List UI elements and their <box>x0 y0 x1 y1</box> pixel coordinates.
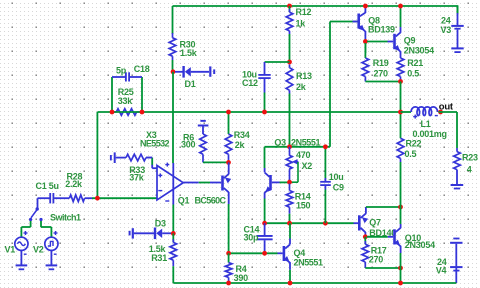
svg-text:0.5: 0.5 <box>407 69 419 79</box>
label Q7 <box>369 218 381 228</box>
diode D3 <box>134 228 171 240</box>
label Q3 <box>274 138 286 148</box>
label R14 <box>295 191 311 201</box>
wire C18 right leg <box>141 77 143 112</box>
label X2 <box>302 161 313 171</box>
node Q9 collector top <box>398 4 403 9</box>
wire Q4 emitter down <box>289 270 291 283</box>
node Q7 emitter junction <box>398 205 403 210</box>
label V2 <box>33 245 44 255</box>
label R21 <box>407 58 423 68</box>
svg-text:D1: D1 <box>185 79 196 89</box>
label V3 <box>441 25 452 35</box>
label R34 <box>234 130 250 140</box>
switch Switch1 <box>29 198 43 221</box>
inductor L1 <box>411 107 438 119</box>
svg-text:470: 470 <box>296 150 311 160</box>
svg-text:R13: R13 <box>296 71 312 81</box>
label R30 value 1.5k <box>180 48 198 58</box>
node Q3/C14 junction <box>262 221 267 226</box>
terminal cell above R6 <box>198 120 209 134</box>
svg-text:33k: 33k <box>118 96 134 106</box>
label V4 <box>436 265 447 275</box>
svg-text:BD139: BD139 <box>368 25 395 35</box>
node Q1 emitter junction <box>226 160 231 165</box>
capacitor C12 <box>258 62 270 93</box>
svg-text:1k: 1k <box>296 18 307 28</box>
svg-text:Q1: Q1 <box>178 196 190 206</box>
wire R31 to rail <box>172 266 174 283</box>
resistor R33 <box>116 154 153 161</box>
wire to L1 <box>401 111 412 113</box>
wire Q4 collector up <box>289 223 291 238</box>
potentiometer X2 <box>286 147 298 182</box>
label R23 <box>462 153 478 163</box>
label R19 <box>373 58 389 68</box>
node out-left junction <box>398 110 403 115</box>
transistor Q8 <box>353 6 366 39</box>
svg-text:2k: 2k <box>235 140 246 150</box>
svg-text:Q3: Q3 <box>274 138 286 148</box>
wire mid left drop <box>96 112 98 198</box>
label D1 <box>185 79 196 89</box>
wire top supply rail <box>173 5 458 14</box>
node R34 top <box>226 110 231 115</box>
label R28 value 2.2k <box>65 179 83 189</box>
transistor Q1 <box>221 167 231 204</box>
svg-text:R21: R21 <box>407 58 423 68</box>
label R17 value 270 <box>369 254 384 264</box>
svg-text:270: 270 <box>374 69 389 79</box>
resistor R31 <box>170 233 177 266</box>
resistor R25 <box>112 109 142 116</box>
label Q9 type 2N3054 <box>404 45 434 55</box>
wire C18 left leg <box>111 77 113 112</box>
svg-text:1.5k: 1.5k <box>180 48 198 58</box>
svg-text:2k: 2k <box>296 82 307 92</box>
svg-text:V4: V4 <box>436 265 447 275</box>
wire mid net <box>97 111 400 113</box>
label R34 value 2k <box>235 140 246 150</box>
svg-text:X2: X2 <box>302 161 313 171</box>
resistor R12 <box>286 6 293 62</box>
capacitor C18 <box>112 72 142 81</box>
label R4 value 390 <box>234 273 249 283</box>
resistor R13 <box>286 65 293 94</box>
svg-text:24: 24 <box>441 16 451 26</box>
svg-text:10u: 10u <box>329 172 344 182</box>
node X2 top junction <box>287 144 292 149</box>
source V1 <box>15 231 28 265</box>
node rail R4 <box>226 281 231 286</box>
node Q7 collector junction <box>363 234 368 239</box>
node Q1/R4 junction <box>226 251 231 256</box>
svg-text:NE5532: NE5532 <box>140 139 170 149</box>
label R28 <box>67 171 83 181</box>
ground at R23 <box>451 184 464 189</box>
label C9 value 10u <box>329 172 344 182</box>
svg-text:0.001mg: 0.001mg <box>413 129 447 139</box>
resistor R19 <box>362 43 369 82</box>
label Q8 <box>368 15 380 25</box>
wire R6 to Q1 emitter node <box>203 161 229 163</box>
node Q4 collector junction <box>287 221 292 226</box>
ground V1 <box>16 264 28 270</box>
label out <box>439 102 454 113</box>
label R13 <box>296 71 312 81</box>
svg-text:5p: 5p <box>116 66 127 76</box>
wire Q8 emitter node <box>364 39 366 53</box>
capacitor C1 <box>38 193 70 203</box>
capacitor C9 <box>320 147 331 223</box>
svg-text:5u: 5u <box>49 181 59 191</box>
capacitor C14 <box>257 223 273 251</box>
label Q8 type BD139 <box>368 25 395 35</box>
wire Q8 base net <box>330 22 358 147</box>
transistor Q10 <box>388 224 401 253</box>
terminal cell at D1 anode <box>209 66 215 76</box>
svg-text:C18: C18 <box>134 64 150 74</box>
wire Q4 base net <box>229 252 278 254</box>
label C18 <box>134 64 150 74</box>
label R33 value 37k <box>129 173 145 183</box>
label Q9 <box>404 36 416 46</box>
label Q4 <box>294 248 306 258</box>
wire R19 bottom link <box>365 81 400 83</box>
label R31 value 1.5k <box>149 244 167 254</box>
label C1 <box>36 181 47 191</box>
diode D1 <box>175 66 209 78</box>
svg-text:R22: R22 <box>406 139 422 149</box>
svg-text:out: out <box>439 102 454 113</box>
svg-text:0.5: 0.5 <box>405 149 417 159</box>
node C12 bottom <box>262 110 267 115</box>
label R33 <box>129 165 145 175</box>
wire Q3 emitter down <box>264 199 266 224</box>
resistor R17 <box>362 237 369 268</box>
label Switch1 <box>50 212 81 222</box>
transistor Q4 <box>278 239 291 270</box>
label C14 value 30p <box>244 232 260 242</box>
svg-text:C1: C1 <box>36 181 47 191</box>
wire switch right to V2 <box>41 221 51 237</box>
svg-text:R34: R34 <box>234 130 250 140</box>
label R6 value 300 <box>181 140 196 150</box>
wire out corner <box>439 112 458 148</box>
svg-text:R19: R19 <box>373 58 389 68</box>
label Q10 <box>405 233 422 243</box>
wire V+ column <box>172 72 174 163</box>
node rail Q4 <box>288 281 293 286</box>
svg-text:C9: C9 <box>333 183 344 193</box>
svg-text:Q9: Q9 <box>404 36 416 46</box>
svg-text:Q4: Q4 <box>294 248 306 258</box>
wire Q10 collector up <box>400 207 402 224</box>
source V2 <box>45 231 58 265</box>
node L1 right junction <box>438 110 443 115</box>
op-amp X3 <box>146 158 183 205</box>
resistor R34 <box>225 112 232 160</box>
label R22 value 0.5 <box>405 149 417 159</box>
wire Q7 collector to Q10 base <box>367 236 388 238</box>
label R12 value 1k <box>296 18 307 28</box>
svg-text:L1: L1 <box>421 119 431 129</box>
node Q8 collector <box>363 4 368 9</box>
wire Q1 collector down <box>228 204 230 253</box>
svg-text:390: 390 <box>234 273 249 283</box>
svg-text:2.2k: 2.2k <box>65 179 83 189</box>
node R12/R13/C12 junction <box>287 60 292 65</box>
label R6 <box>183 133 194 143</box>
node D3 junction <box>171 231 176 236</box>
label V1 <box>5 245 16 255</box>
svg-text:R23: R23 <box>462 153 478 163</box>
label C9 <box>333 183 344 193</box>
wire op-amp output <box>183 182 221 184</box>
svg-text:R31: R31 <box>151 253 167 263</box>
resistor R30 <box>169 33 176 60</box>
svg-text:150: 150 <box>296 201 311 211</box>
label X3 type NE5532 <box>140 139 170 149</box>
battery V4 <box>450 238 462 283</box>
label R22 <box>406 139 422 149</box>
node R25 left <box>110 110 115 115</box>
svg-text:4: 4 <box>467 165 472 175</box>
node rail Q10 <box>398 281 403 286</box>
label R30 <box>180 40 196 50</box>
wire Q8 emitter to Q9 base <box>367 41 388 43</box>
label C14 <box>244 225 260 235</box>
svg-text:Switch1: Switch1 <box>50 212 81 222</box>
resistor R4 <box>225 253 232 283</box>
node R25 right <box>140 110 145 115</box>
label V4 value 24 <box>437 257 447 267</box>
svg-text:2N5551: 2N5551 <box>294 258 324 268</box>
svg-text:2N3054: 2N3054 <box>405 240 435 250</box>
label R31 <box>151 253 167 263</box>
label C12 value 10u <box>242 70 257 80</box>
label L1 <box>421 119 431 129</box>
label R25 <box>118 87 134 97</box>
label C18 value 5p <box>116 66 127 76</box>
resistor R21 <box>397 58 404 82</box>
label X2 value 470 <box>296 150 311 160</box>
svg-text:300: 300 <box>181 140 196 150</box>
wire C12 top <box>265 61 290 63</box>
label R21 value 0.5 <box>407 69 419 79</box>
node X2 bottom junction <box>287 180 292 185</box>
wire Q3 base <box>280 181 290 183</box>
wire Q7 emitter link <box>366 206 401 208</box>
label R4 <box>236 264 247 274</box>
label Q4 type 2N5551 <box>294 258 324 268</box>
label C12 <box>242 78 258 88</box>
wire C12 bottom <box>264 93 266 113</box>
resistor R14 <box>286 184 293 214</box>
svg-text:V2: V2 <box>33 245 44 255</box>
svg-text:V1: V1 <box>5 245 16 255</box>
resistor R6 <box>200 134 207 162</box>
svg-text:2N5551: 2N5551 <box>291 138 321 148</box>
label R12 <box>296 7 312 17</box>
label R13 value 2k <box>296 82 307 92</box>
wire R14 bottom <box>289 214 291 224</box>
transistor Q7 (PNP) <box>354 207 369 236</box>
label Q7 type BD140 <box>369 228 396 238</box>
wire driver net <box>265 222 354 224</box>
node D1/R30 junction <box>171 69 176 74</box>
label Q1 type BC560C <box>195 196 227 206</box>
terminal cell at R33 <box>110 152 116 163</box>
wire bottom rail <box>173 282 456 284</box>
wire R30 bottom <box>172 60 174 72</box>
wire Q10 emitter down <box>400 253 402 284</box>
svg-text:Q7: Q7 <box>369 218 381 228</box>
transistor Q9 <box>388 27 401 58</box>
label L1 value 0.001mg <box>413 129 447 139</box>
wire R30 top lead <box>172 6 174 34</box>
resistor R22 <box>397 112 404 207</box>
node R19/R21 junction <box>398 79 403 84</box>
node C9 bottom junction <box>323 221 328 226</box>
label R19 value 270 <box>374 69 389 79</box>
wire down to out node <box>400 82 402 113</box>
label R17 <box>371 246 387 256</box>
svg-text:37k: 37k <box>129 173 145 183</box>
node Q8 emitter junction <box>363 39 368 44</box>
label Q1 <box>178 196 190 206</box>
node C14 bottom junction <box>262 251 267 256</box>
resistor R23 <box>454 148 461 184</box>
ground V2 <box>46 264 58 270</box>
label R14 value 150 <box>296 201 311 211</box>
wire switch left to V1 <box>21 221 30 237</box>
label D3 <box>155 219 166 229</box>
svg-text:R12: R12 <box>296 7 312 17</box>
terminal cell at D3 <box>129 228 134 238</box>
svg-text:V3: V3 <box>441 25 452 35</box>
svg-text:D3: D3 <box>155 219 166 229</box>
wire Q9 collector <box>400 6 402 27</box>
svg-text:2N3054: 2N3054 <box>404 45 434 55</box>
label R25 value 33k <box>118 96 134 106</box>
transistor Q3 (mirrored) <box>265 168 280 199</box>
wire op-amp V- down <box>172 205 174 234</box>
label R23 value 4 <box>467 165 472 175</box>
label C1 value 5u <box>49 181 59 191</box>
label Q10 type 2N3054 <box>405 240 435 250</box>
label Q3 type 2N5551 <box>291 138 321 148</box>
wire R13 to Q3 node <box>289 94 291 147</box>
battery V3 <box>451 6 463 53</box>
wire inverting input <box>92 197 157 199</box>
svg-text:BC560C: BC560C <box>195 196 227 206</box>
svg-text:270: 270 <box>369 254 384 264</box>
svg-text:C12: C12 <box>242 78 258 88</box>
wire R17 bottom link <box>365 267 400 269</box>
resistor R28 <box>69 195 92 202</box>
node inverting junction <box>95 196 100 201</box>
node C9 top junction <box>323 144 328 149</box>
node R12 top <box>287 4 292 9</box>
node R17/Q10 emitter junction <box>398 266 403 271</box>
label X3 <box>146 130 157 140</box>
wire Q1 emitter up <box>228 162 230 167</box>
label V3 value 24 <box>441 16 451 26</box>
wire Q3 collector net <box>265 147 331 168</box>
svg-text:30p: 30p <box>244 232 260 242</box>
